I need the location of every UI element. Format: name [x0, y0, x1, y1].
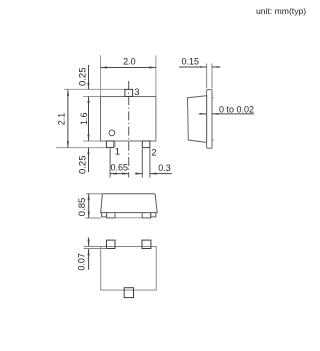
0.15 extension line right	[211, 64, 213, 89]
pin 1 center extension	[109, 148, 111, 177]
dimension 1.6 line	[88, 97, 90, 142]
0.07 lower extension line	[84, 248, 107, 250]
body bottom view	[101, 247, 157, 291]
pin 3 tab	[125, 89, 133, 96]
0.85 extension line bottom	[86, 217, 101, 219]
left outer foot	[102, 213, 107, 217]
body side profile	[188, 96, 207, 143]
0 to 0.02 left arrow	[199, 113, 207, 115]
svg-text:0.25: 0.25	[77, 156, 88, 175]
0 to 0.02 leader with arrow	[212, 113, 254, 115]
0.07 top arrow	[88, 238, 90, 247]
pad 3 bottom view	[124, 288, 133, 298]
dimension 0.3 right arrow and leader	[150, 173, 172, 175]
svg-text:2.1: 2.1	[56, 113, 66, 126]
svg-text:0 to 0.02: 0 to 0.02	[219, 104, 254, 114]
body-bottom extension line	[83, 140, 101, 142]
svg-text:0.65: 0.65	[111, 163, 129, 173]
lead fold tick top	[212, 97, 214, 99]
pad 2 bottom view	[142, 240, 151, 248]
svg-text:0.3: 0.3	[158, 163, 171, 173]
dimension 2.0 line	[101, 67, 156, 69]
svg-text:1: 1	[115, 147, 120, 158]
svg-text:0.85: 0.85	[77, 198, 88, 217]
dimension 0.15 right shaft and arrow	[212, 66, 221, 68]
right inner foot	[142, 213, 151, 218]
extension line left for dim 2.0	[100, 55, 102, 96]
dimension 0.25 bottom arrow	[88, 148, 90, 172]
svg-text:unit: mm(typ): unit: mm(typ)	[256, 6, 306, 16]
svg-text:0.25: 0.25	[77, 68, 88, 87]
dimension 0.15 left shaft and arrow	[179, 66, 207, 68]
seating line between feet	[115, 217, 142, 219]
pad 1 bottom view	[107, 240, 116, 248]
right outer foot	[151, 213, 156, 217]
body middle side view	[101, 194, 158, 213]
svg-text:3: 3	[134, 87, 139, 98]
pin 2 right-edge extension	[149, 148, 151, 177]
extension line right for dim 2.0	[155, 55, 157, 96]
centerline	[128, 81, 130, 178]
tab-top extension line	[64, 88, 125, 90]
svg-text:0.07: 0.07	[77, 253, 87, 271]
0.85 extension line top	[86, 193, 102, 195]
pin 2 tab	[142, 141, 150, 148]
dimension 0.25 top arrow	[88, 65, 90, 89]
left inner foot	[107, 213, 115, 218]
lead strip side view	[207, 90, 212, 149]
pin 2 left-edge extension	[141, 148, 143, 177]
body-top extension line	[83, 96, 101, 98]
dimension 2.1 line	[67, 89, 69, 147]
package body front view	[101, 97, 156, 142]
pin 1 tab	[106, 141, 114, 148]
0.07 bottom arrow	[88, 249, 90, 270]
svg-text:2.0: 2.0	[123, 57, 136, 67]
pin-bottom extension line	[56, 147, 106, 149]
0.07 upper extension line	[84, 246, 107, 248]
0.15 extension line left	[206, 64, 208, 89]
dimension 0.85 line	[88, 194, 90, 218]
svg-text:0.15: 0.15	[182, 56, 200, 66]
lead fold tick bottom	[212, 139, 214, 141]
dimension 0.65	[110, 173, 129, 175]
lead shadow right of pin 1	[114, 142, 116, 147]
svg-text:2: 2	[151, 147, 156, 158]
svg-text:1.6: 1.6	[79, 112, 89, 125]
pin 1 index circle	[109, 130, 115, 136]
dimension 0.3 left arrow	[135, 173, 143, 175]
